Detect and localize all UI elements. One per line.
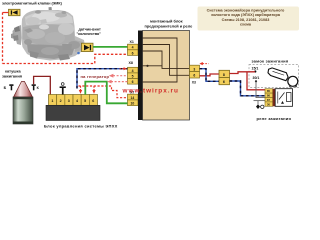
svg-text:6: 6 [132, 80, 134, 84]
svg-text:Система экономайзера принудите: Система экономайзера принудительного [207, 9, 285, 13]
connector X1 pin 6 [128, 50, 139, 56]
connector X7 pin 10 [128, 100, 139, 106]
svg-text:5: 5 [84, 99, 86, 103]
connector Х3 pin 6 [190, 72, 200, 78]
wire: maroon К to control unit pin 1 [34, 76, 51, 94]
connector X8 pin 6 [128, 79, 139, 85]
block internal wire at junction [143, 65, 163, 67]
svg-text:электромагнитный клапан (ЭМК): электромагнитный клапан (ЭМК) [2, 2, 63, 6]
svg-text:6: 6 [193, 74, 195, 78]
marker: red arrow above Х3 [199, 62, 208, 65]
control unit body [46, 105, 100, 120]
ignition coil body [13, 97, 33, 124]
marker: red arrow into X8-4 [120, 67, 128, 70]
svg-text:30/1: 30/1 [253, 76, 260, 80]
marker: pink arrow from X8-5 to generator [109, 74, 128, 78]
connector X8 pin 4 [128, 67, 139, 73]
wire: red dashed vertical (left edge) [2, 13, 4, 64]
svg-text:1: 1 [51, 99, 53, 103]
wire: grey to relay pin 4 [254, 100, 266, 102]
sensor screw symbol [82, 43, 94, 51]
ignition relay strip [273, 89, 276, 107]
title panel [198, 7, 300, 31]
block internal junction [146, 65, 148, 67]
svg-text:предохранителей и реле: предохранителей и реле [145, 24, 194, 29]
wire: red branch down to relay pin 1 [247, 72, 265, 90]
svg-text:www.twirpx.ru: www.twirpx.ru [122, 87, 179, 94]
junction diamond [256, 104, 260, 109]
carburetor photo [11, 7, 85, 61]
svg-text:3: 3 [193, 67, 195, 71]
block internal wiring: outer loop [143, 38, 178, 82]
svg-text:на генератор: на генератор [81, 74, 110, 79]
svg-text:Х3: Х3 [192, 80, 196, 84]
marker: pink arrow from X8-6 to generator [107, 80, 128, 84]
wire: blue connector 6 to relay pin 2 [230, 81, 266, 96]
connector Х3 pin 3 [190, 65, 200, 71]
control unit pins 1-6 [49, 95, 98, 106]
svg-text:2: 2 [60, 99, 62, 103]
wire: grey ignition 30/1 down to relay pin 3 [256, 81, 265, 97]
wire: blue Х3-3 to connector pin 6 [200, 69, 220, 82]
node: blue mark on photo [77, 52, 80, 55]
wire: blue control unit pin 4 to X8-4 [77, 69, 128, 89]
wire: red stub from ЭМК [3, 12, 9, 14]
svg-text:5: 5 [132, 74, 134, 78]
wire: green control unit pin 5 to X7-10 [85, 82, 127, 104]
ignition relay pins [265, 89, 273, 107]
connector pin 8 [219, 70, 230, 77]
coil terminal Б [9, 84, 13, 90]
connector X8 pin 5 [128, 73, 139, 79]
svg-text:холостого хода (ЭПХХ) карбюрат: холостого хода (ЭПХХ) карбюратора [211, 13, 281, 17]
svg-text:6: 6 [223, 80, 225, 84]
junction circle terminal [261, 105, 264, 108]
svg-text:датчик-винт: датчик-винт [79, 28, 101, 32]
svg-text:4: 4 [132, 69, 134, 73]
svg-text:4: 4 [132, 46, 134, 50]
ignition key [268, 68, 298, 87]
svg-text:3: 3 [68, 99, 70, 103]
solenoid valve symbol (ЭМК) [9, 9, 21, 15]
coil terminal К [32, 84, 36, 90]
connector pin 6 [219, 78, 230, 85]
block internal wiring: inner loop [143, 51, 190, 68]
wire: red dashed horizontal to X1-6 [3, 54, 128, 63]
svg-text:схема: схема [240, 22, 252, 26]
svg-text:15/1: 15/1 [252, 66, 259, 70]
svg-text:зажигания: зажигания [2, 74, 22, 79]
marker: red arrow into unit pin 6 [92, 86, 95, 94]
wire: red dashed feed bus to X7-14 [79, 86, 128, 98]
fuse/relay mounting block body [143, 31, 190, 121]
svg-text:Схемы 2108, 21081, 21083: Схемы 2108, 21081, 21083 [222, 18, 270, 22]
svg-text:Блок управления системы ЭПХХ: Блок управления системы ЭПХХ [44, 124, 118, 129]
svg-text:14: 14 [131, 96, 135, 100]
wire: red connector 8 to ignition 15/1 [230, 72, 256, 74]
svg-text:10: 10 [131, 102, 135, 106]
wire: red Х3-6 to connector pin 8 [200, 74, 220, 76]
ignition switch dashed box [249, 65, 299, 88]
svg-text:Б: Б [4, 86, 7, 90]
marker: red arrow into unit pin 4 [79, 86, 82, 94]
svg-text:Х1: Х1 [130, 40, 134, 44]
fuse block left bar [138, 31, 143, 121]
svg-text:4: 4 [76, 99, 78, 103]
contact dot 15/1 [254, 70, 256, 72]
T-post terminal above pin 2 [60, 83, 66, 95]
contact dot 30/1 [255, 80, 257, 82]
ignition relay body [275, 89, 292, 107]
svg-text:"количества": "количества" [77, 32, 102, 36]
wire: green sensor to X1-4 [93, 46, 128, 48]
svg-text:Х8: Х8 [129, 61, 133, 65]
svg-text:6: 6 [132, 51, 134, 55]
svg-text:8: 8 [223, 73, 225, 77]
block internal wiring: middle loop [143, 45, 190, 76]
svg-text:замок зажигания: замок зажигания [252, 59, 289, 64]
svg-text:реле зажигания: реле зажигания [257, 116, 292, 121]
svg-text:6: 6 [92, 99, 94, 103]
connector X7 pin 14 [128, 94, 139, 100]
wire: stub from diamond up [257, 101, 259, 105]
ignition coil cone [14, 82, 33, 98]
connector X1 pin 4 [128, 44, 139, 50]
